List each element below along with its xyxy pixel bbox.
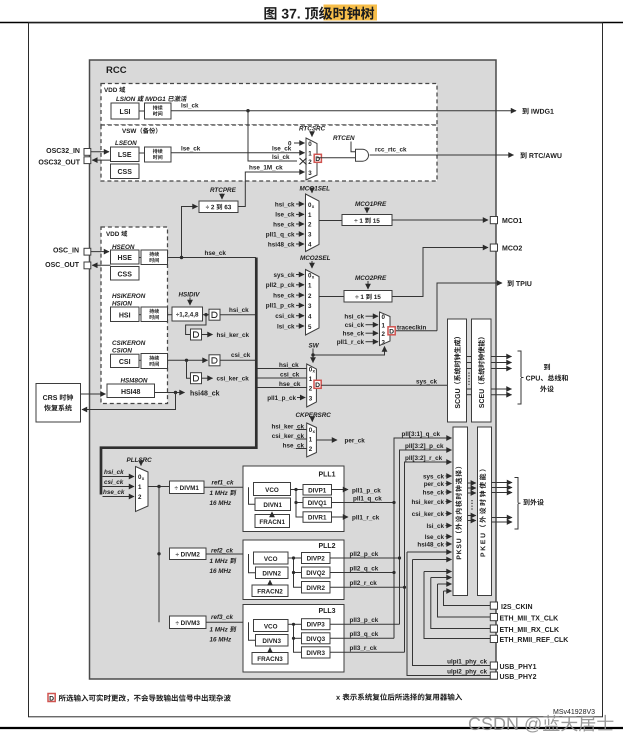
svg-text:ETH_MII_RX_CLK: ETH_MII_RX_CLK [500, 627, 560, 634]
svg-text:LSE: LSE [118, 152, 132, 159]
svg-text:hsi_ker_ck: hsi_ker_ck [411, 499, 444, 506]
svg-text:ETH_RMII_REF_CLK: ETH_RMII_REF_CLK [500, 637, 569, 644]
svg-text:hsi_ker_ck: hsi_ker_ck [217, 332, 250, 339]
svg-text:MCO2SEL: MCO2SEL [300, 255, 331, 262]
svg-text:OSC32_OUT: OSC32_OUT [38, 159, 80, 166]
svg-text:pll1_p_ck: pll1_p_ck [352, 487, 381, 494]
svg-text:PLL3: PLL3 [318, 608, 335, 615]
svg-text:ulpi2_phy_ck: ulpi2_phy_ck [447, 668, 487, 675]
svg-text:VCO: VCO [264, 556, 278, 563]
svg-text:pll1_r_ck: pll1_r_ck [337, 339, 365, 346]
svg-text:16 MHz: 16 MHz [210, 637, 233, 644]
svg-text:pll1_r_ck: pll1_r_ck [352, 514, 380, 521]
svg-text:DIVR1: DIVR1 [308, 515, 327, 522]
svg-text:pll1_p_ck: pll1_p_ck [267, 395, 296, 402]
svg-text:16 MHz: 16 MHz [210, 500, 233, 507]
svg-text:4: 4 [308, 314, 312, 321]
svg-text:hsi_ck: hsi_ck [279, 362, 299, 369]
svg-text:hsi_ck: hsi_ck [104, 469, 124, 476]
svg-text:pll2_p_ck: pll2_p_ck [266, 282, 295, 289]
svg-text:pll3_r_ck: pll3_r_ck [350, 645, 378, 652]
svg-text:lse_ck: lse_ck [181, 145, 201, 152]
svg-text:CSION: CSION [112, 347, 132, 354]
svg-text:2: 2 [308, 293, 312, 300]
svg-text:1: 1 [308, 212, 312, 219]
svg-text:MCO1: MCO1 [502, 218, 522, 225]
svg-text:hsi_ck: hsi_ck [229, 307, 249, 314]
svg-text:pll1_q_ck: pll1_q_ck [266, 231, 295, 238]
svg-text:RTCEN: RTCEN [333, 135, 355, 142]
svg-text:1: 1 [138, 484, 142, 491]
svg-text:ETH_MII_TX_CLK: ETH_MII_TX_CLK [500, 615, 559, 622]
svg-text:pll1_q_ck: pll1_q_ck [353, 495, 382, 502]
svg-text:HSIKERON: HSIKERON [112, 293, 146, 300]
svg-text:DIVQ3: DIVQ3 [306, 636, 325, 643]
svg-text:traceclkin: traceclkin [397, 325, 427, 332]
svg-text:pll[3:1]_q_ck: pll[3:1]_q_ck [402, 431, 441, 438]
svg-text:CSI: CSI [119, 359, 131, 366]
svg-text:csi_ck: csi_ck [345, 322, 365, 329]
svg-text:csi_ck: csi_ck [104, 479, 124, 486]
svg-text:CSS: CSS [117, 169, 132, 176]
svg-text:per_ck: per_ck [345, 438, 366, 445]
svg-text:ulpi1_phy_ck: ulpi1_phy_ck [447, 658, 487, 665]
svg-text:2: 2 [309, 446, 313, 453]
svg-text:1: 1 [309, 437, 313, 444]
svg-text:CSIKERON: CSIKERON [112, 340, 146, 347]
svg-text:3: 3 [308, 170, 312, 177]
svg-text:sys_ck: sys_ck [273, 272, 295, 279]
svg-text:OSC_OUT: OSC_OUT [45, 262, 80, 269]
svg-text:FRACN3: FRACN3 [257, 656, 283, 663]
svg-text:SW: SW [309, 343, 320, 350]
svg-text:I2S_CKIN: I2S_CKIN [501, 604, 533, 611]
svg-text:2: 2 [382, 331, 386, 338]
svg-text:DIVQ2: DIVQ2 [306, 570, 325, 577]
svg-text:MCO2: MCO2 [502, 246, 522, 253]
svg-text:hse_ck: hse_ck [279, 381, 301, 388]
svg-text:PLLSRC: PLLSRC [127, 457, 153, 464]
svg-text:OSC32_IN: OSC32_IN [46, 148, 80, 155]
svg-text:DIVP3: DIVP3 [307, 622, 326, 629]
svg-text:hsi48_ck: hsi48_ck [268, 241, 295, 248]
svg-text:FRACN2: FRACN2 [257, 589, 283, 596]
svg-text:PLL1: PLL1 [318, 472, 335, 479]
svg-text:16 MHz: 16 MHz [210, 568, 233, 575]
svg-text:1: 1 [309, 376, 313, 383]
svg-text:pll[3:2]_r_ck: pll[3:2]_r_ck [405, 455, 443, 462]
svg-text:MCO2PRE: MCO2PRE [355, 275, 387, 282]
svg-text:hse_ck: hse_ck [423, 489, 445, 496]
svg-text:ref2_ck: ref2_ck [211, 548, 234, 555]
svg-text:hse_1M_ck: hse_1M_ck [249, 165, 283, 172]
svg-text:4: 4 [308, 242, 312, 249]
svg-text:USB_PHY1: USB_PHY1 [500, 664, 537, 671]
svg-text:2: 2 [308, 159, 312, 166]
svg-text:RTCSRC: RTCSRC [299, 126, 326, 133]
svg-text:hsi_ck: hsi_ck [275, 201, 295, 208]
svg-text:÷ DIVM3: ÷ DIVM3 [175, 620, 200, 627]
svg-text:÷ DIVM2: ÷ DIVM2 [175, 552, 200, 559]
svg-text:1: 1 [308, 283, 312, 290]
svg-text:÷1,2,4,8: ÷1,2,4,8 [176, 312, 199, 319]
svg-text:USB_PHY2: USB_PHY2 [500, 674, 537, 681]
svg-text:FRACN1: FRACN1 [259, 519, 285, 526]
svg-text:DIVR2: DIVR2 [306, 585, 325, 592]
svg-text:MSv41928V3: MSv41928V3 [553, 709, 595, 716]
svg-text:VCO: VCO [264, 623, 278, 630]
svg-text:RCC: RCC [106, 65, 127, 76]
svg-text:VCO: VCO [265, 487, 279, 494]
svg-text:2: 2 [309, 385, 313, 392]
svg-text:DIVP1: DIVP1 [308, 487, 327, 494]
svg-text:0: 0 [288, 140, 292, 147]
svg-text:ref3_ck: ref3_ck [211, 614, 234, 621]
svg-text:per_ck: per_ck [424, 481, 445, 488]
svg-text:DIVN1: DIVN1 [263, 502, 282, 509]
svg-text:hse_ck: hse_ck [343, 331, 365, 338]
svg-text:3: 3 [309, 395, 313, 402]
svg-text:pll3_p_ck: pll3_p_ck [350, 617, 379, 624]
svg-text:2: 2 [308, 222, 312, 229]
svg-text:MCO1PRE: MCO1PRE [355, 201, 387, 208]
svg-text:lsi_ck: lsi_ck [272, 154, 290, 161]
svg-text:pll2_p_ck: pll2_p_ck [350, 551, 379, 558]
svg-text:1: 1 [308, 150, 312, 157]
svg-text:pll3_q_ck: pll3_q_ck [350, 631, 379, 638]
svg-text:pll2_q_ck: pll2_q_ck [350, 565, 379, 572]
svg-text:DIVR3: DIVR3 [306, 650, 325, 657]
svg-text:3: 3 [308, 303, 312, 310]
svg-text:hsi_ck: hsi_ck [344, 314, 364, 321]
svg-text:hsi48_ck: hsi48_ck [190, 391, 220, 398]
svg-text:÷ DIVM1: ÷ DIVM1 [174, 485, 199, 492]
svg-text:hsi48_ck: hsi48_ck [417, 541, 444, 548]
svg-text:lse_ck: lse_ck [425, 534, 445, 541]
svg-text:sys_ck: sys_ck [416, 378, 438, 385]
svg-text:ref1_ck: ref1_ck [212, 480, 235, 487]
svg-text:LSI: LSI [120, 109, 131, 116]
svg-text:0: 0 [308, 141, 312, 148]
svg-text:MCO1SEL: MCO1SEL [300, 186, 331, 193]
svg-text:csi_ck: csi_ck [275, 313, 295, 320]
svg-text:HSI: HSI [119, 312, 131, 319]
svg-text:lsi_ck: lsi_ck [426, 523, 444, 530]
svg-text:OSC_IN: OSC_IN [53, 247, 79, 254]
svg-text:3: 3 [382, 340, 386, 347]
svg-text:DIVQ1: DIVQ1 [308, 500, 327, 507]
svg-text:pll[3:2]_p_ck: pll[3:2]_p_ck [405, 443, 444, 450]
svg-text:5: 5 [308, 324, 312, 331]
svg-text:lsi_ck: lsi_ck [181, 103, 199, 110]
svg-text:CKPERSRC: CKPERSRC [296, 412, 332, 419]
svg-text:LSEON: LSEON [115, 140, 137, 147]
svg-text:hse_ck: hse_ck [205, 250, 227, 257]
svg-text:CSS: CSS [117, 271, 132, 278]
svg-text:DIVN3: DIVN3 [262, 638, 281, 645]
svg-text:pll1_p_ck: pll1_p_ck [266, 303, 295, 310]
svg-text:1: 1 [382, 323, 386, 330]
svg-text:HSIDIV: HSIDIV [179, 292, 201, 299]
svg-text:sys_ck: sys_ck [423, 473, 445, 480]
svg-text:HSION: HSION [112, 301, 132, 308]
svg-text:3: 3 [308, 232, 312, 239]
svg-text:DIVP2: DIVP2 [307, 556, 326, 563]
svg-text:hse_ck: hse_ck [273, 292, 295, 299]
svg-text:rcc_rtc_ck: rcc_rtc_ck [375, 146, 407, 153]
svg-text:RTCPRE: RTCPRE [210, 187, 237, 194]
svg-text:HSI48: HSI48 [121, 389, 141, 396]
svg-text:HSE: HSE [117, 255, 132, 262]
svg-text:DIVN2: DIVN2 [262, 571, 281, 578]
svg-text:lse_ck: lse_ck [275, 212, 295, 219]
svg-text:csi_ker_ck: csi_ker_ck [412, 511, 445, 518]
svg-text:lsi_ck: lsi_ck [277, 323, 295, 330]
svg-text:0: 0 [382, 314, 386, 321]
svg-text:hse_ck: hse_ck [103, 489, 125, 496]
svg-text:2: 2 [138, 494, 142, 501]
svg-text:pll2_r_ck: pll2_r_ck [350, 580, 378, 587]
svg-text:HSI48ON: HSI48ON [121, 378, 148, 385]
svg-text:csi_ck: csi_ck [231, 352, 251, 359]
svg-text:PLL2: PLL2 [318, 543, 335, 550]
svg-text:hse_ck: hse_ck [273, 221, 295, 228]
svg-text:csi_ker_ck: csi_ker_ck [217, 376, 250, 383]
svg-text:csi_ck: csi_ck [280, 371, 300, 378]
